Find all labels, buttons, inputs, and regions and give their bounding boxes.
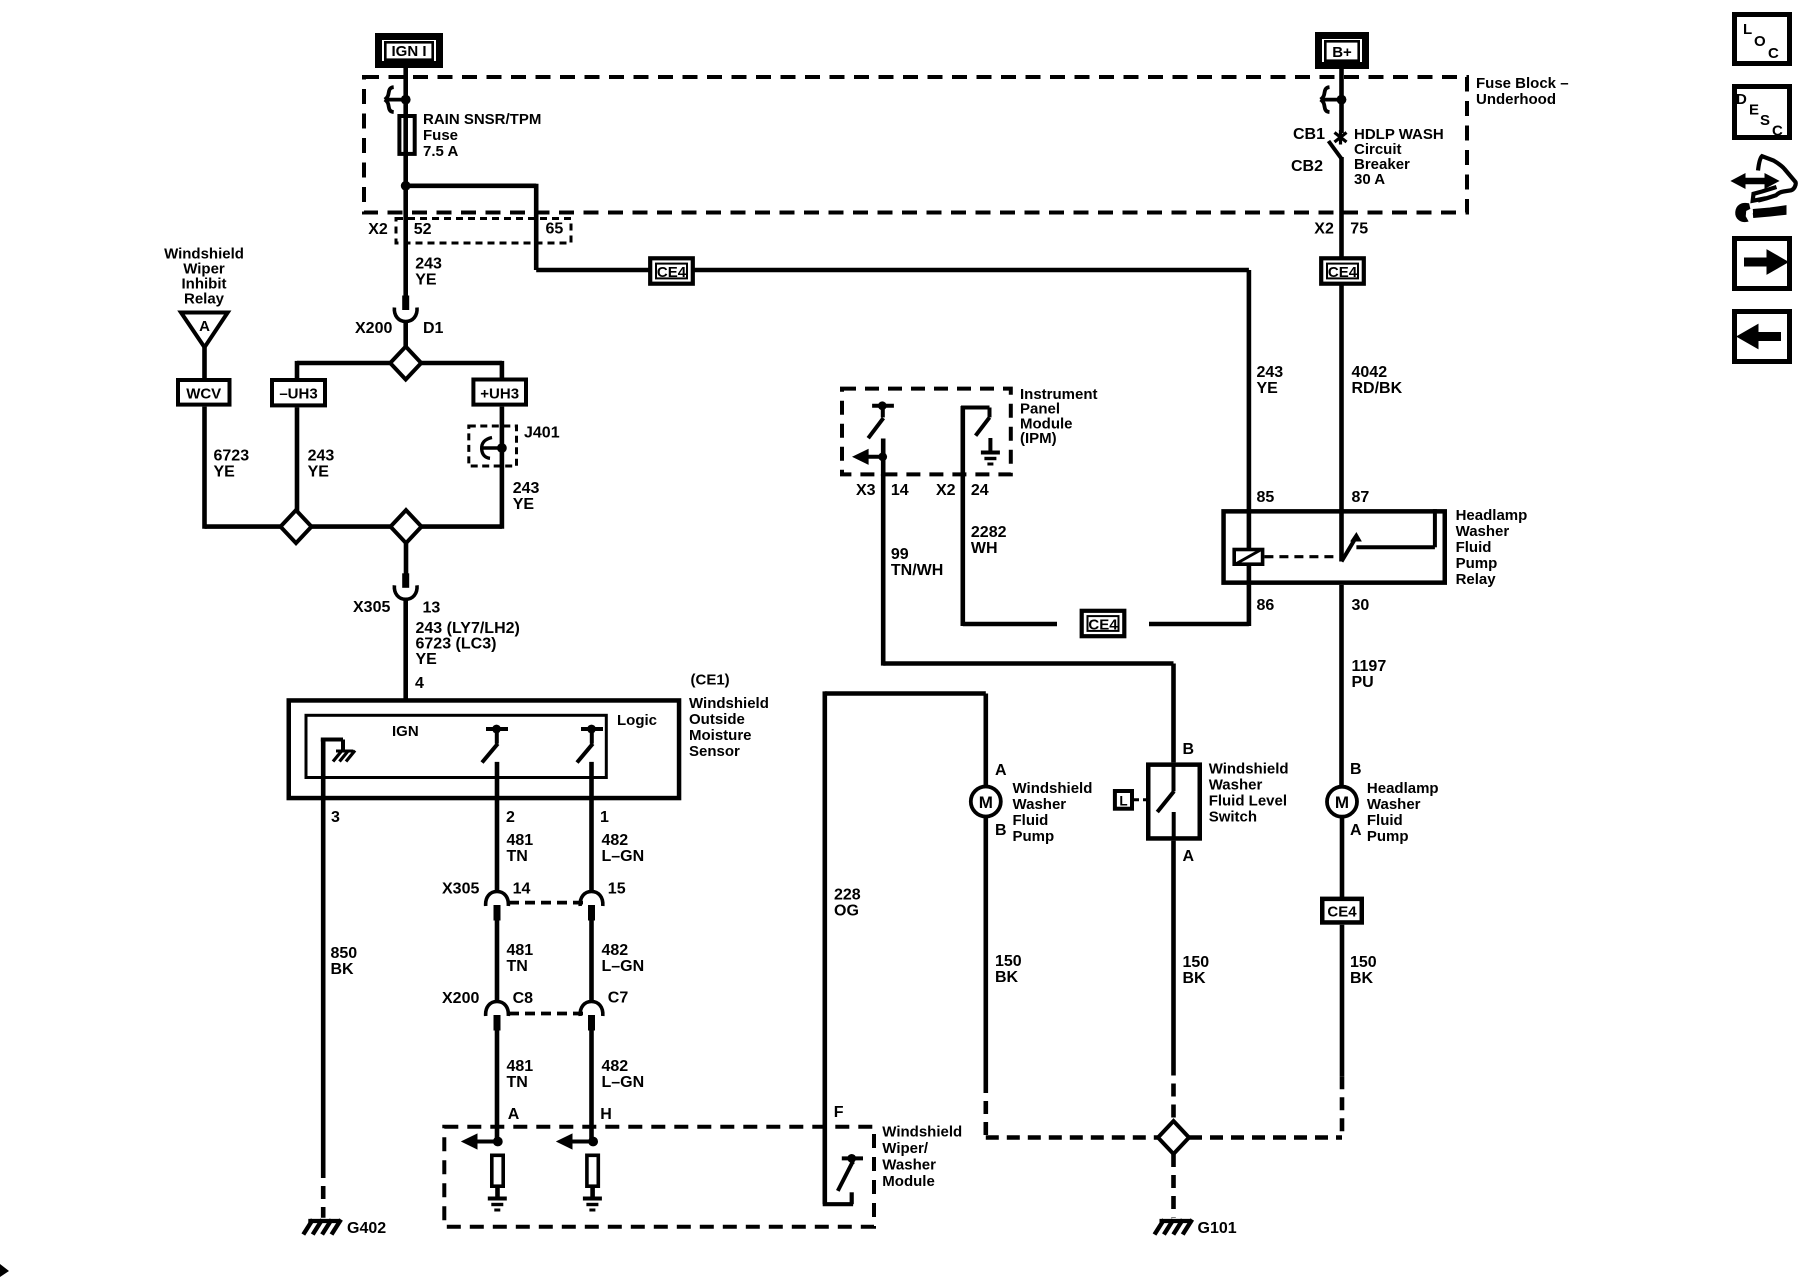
- svg-text:B: B: [995, 822, 1007, 839]
- fuse block underhood dashed box: [364, 77, 1467, 213]
- svg-text:Logic: Logic: [617, 712, 657, 729]
- sensor pin 3 wire: [321, 740, 326, 1166]
- svg-text:243: 243: [308, 448, 335, 465]
- svg-text:TN: TN: [507, 848, 528, 865]
- svg-text:O: O: [1754, 33, 1766, 50]
- svg-text:(CE1): (CE1): [691, 672, 730, 689]
- svg-text:X305: X305: [442, 881, 479, 898]
- svg-text:TN: TN: [507, 1074, 528, 1091]
- svg-text:Moisture: Moisture: [689, 727, 752, 744]
- svg-text:YE: YE: [513, 496, 535, 513]
- in-line connector CE4 mid: [1082, 611, 1125, 636]
- IPM right contact and ground: [960, 406, 965, 476]
- svg-text:243 (LY7/LH2): 243 (LY7/LH2): [416, 620, 520, 637]
- svg-text:E: E: [1749, 102, 1759, 119]
- connector X305 pin 13: [402, 573, 409, 588]
- wire CE4 to relay 87: [1339, 285, 1344, 511]
- svg-text:G402: G402: [347, 1220, 386, 1237]
- svg-text:14: 14: [891, 482, 909, 499]
- sidebar wrench icon: [1758, 156, 1796, 200]
- module F foot and switch: [823, 1202, 853, 1206]
- svg-text:482: 482: [602, 942, 629, 959]
- svg-text:YE: YE: [415, 272, 437, 289]
- svg-text:CB2: CB2: [1291, 158, 1323, 175]
- svg-text:CE4: CE4: [1328, 264, 1358, 281]
- svg-text:Washer: Washer: [1209, 777, 1263, 794]
- svg-text:481: 481: [507, 1058, 534, 1075]
- svg-text:X3: X3: [856, 482, 876, 499]
- svg-text:A: A: [995, 762, 1007, 779]
- svg-text:BK: BK: [995, 969, 1019, 986]
- svg-text:Fluid: Fluid: [1367, 812, 1403, 829]
- svg-text:L: L: [1119, 794, 1127, 809]
- in-line connector CE4 bottom: [1322, 899, 1362, 923]
- svg-text:IGN I: IGN I: [391, 43, 426, 60]
- svg-text:YE: YE: [308, 464, 330, 481]
- svg-text:Relay: Relay: [184, 291, 225, 308]
- wire CE4 to relay col: [693, 268, 1249, 273]
- svg-text:X200: X200: [442, 990, 479, 1007]
- ground G101: [1160, 1219, 1192, 1223]
- svg-text:A: A: [508, 1106, 520, 1123]
- svg-text:BK: BK: [331, 961, 355, 978]
- wire S2 to S3: [312, 524, 391, 529]
- svg-text:CE4: CE4: [1088, 616, 1118, 633]
- wire junction down through X2-52: [403, 186, 408, 296]
- splice J401 dashed box: [469, 426, 517, 466]
- svg-text:CE4: CE4: [1327, 904, 1357, 921]
- svg-text:3: 3: [331, 809, 340, 826]
- svg-text:Headlamp: Headlamp: [1456, 507, 1528, 524]
- svg-text:X2: X2: [936, 482, 956, 499]
- svg-text:X2: X2: [368, 221, 388, 238]
- dashed wire to G402: [321, 1165, 326, 1218]
- svg-text:B+: B+: [1332, 44, 1352, 61]
- svg-text:F: F: [834, 1104, 844, 1121]
- svg-text:WH: WH: [971, 540, 998, 557]
- svg-text:D1: D1: [423, 320, 444, 337]
- wire D1 to splice: [403, 322, 408, 349]
- svg-text:Fuse Block –: Fuse Block –: [1476, 75, 1569, 92]
- svg-text:C7: C7: [608, 990, 629, 1007]
- sensor switch 1: [486, 727, 508, 731]
- in-line connector CE4 right-top: [1321, 258, 1364, 283]
- wire splice to +UH3: [421, 361, 502, 366]
- svg-text:YE: YE: [416, 651, 438, 668]
- svg-text:OG: OG: [834, 903, 859, 920]
- wire -UH3 down: [295, 407, 300, 511]
- svg-text:Underhood: Underhood: [1476, 91, 1556, 108]
- svg-text:150: 150: [1350, 954, 1377, 971]
- svg-text:15: 15: [608, 881, 626, 898]
- wire 228 OG : module F up and over to washer pump: [822, 691, 827, 1204]
- svg-text:D: D: [1736, 91, 1747, 108]
- svg-text:PU: PU: [1352, 674, 1374, 691]
- svg-text:X200: X200: [355, 320, 392, 337]
- svg-text:Washer: Washer: [1013, 796, 1067, 813]
- svg-text:243: 243: [415, 256, 442, 273]
- relay switch 87-30: [1339, 509, 1344, 561]
- box +UH3: [473, 380, 526, 405]
- svg-text:99: 99: [891, 546, 909, 563]
- svg-text:482: 482: [602, 832, 629, 849]
- power feed IGN I: [379, 37, 440, 65]
- fuse RAIN SNSR/TPM 7.5A: [399, 116, 414, 154]
- svg-text:Windshield: Windshield: [1013, 780, 1093, 797]
- svg-text:A: A: [1183, 848, 1195, 865]
- svg-text:CE4: CE4: [657, 264, 687, 281]
- wire 2282 WH: [960, 474, 965, 626]
- svg-text:Washer: Washer: [1456, 523, 1510, 540]
- svg-text:481: 481: [507, 942, 534, 959]
- sidebar icon LOC: [1735, 15, 1790, 64]
- wire WCV down: [202, 407, 207, 529]
- module ground 1: [488, 1197, 507, 1201]
- headlamp washer fluid pump relay box: [1224, 511, 1445, 582]
- svg-text:Washer: Washer: [882, 1157, 936, 1174]
- svg-text:2282: 2282: [971, 524, 1007, 541]
- power feed B+: [1319, 36, 1366, 66]
- svg-text:4042: 4042: [1352, 364, 1388, 381]
- svg-text:YE: YE: [1257, 380, 1279, 397]
- dashed wires into ground splice: [986, 1135, 1158, 1140]
- svg-text:RD/BK: RD/BK: [1352, 380, 1403, 397]
- svg-text:L–GN: L–GN: [602, 958, 645, 975]
- svg-text:4: 4: [415, 675, 424, 692]
- svg-text:C8: C8: [513, 990, 534, 1007]
- relay coil: [1247, 509, 1252, 549]
- svg-text:Washer: Washer: [1367, 796, 1421, 813]
- svg-text:228: 228: [834, 887, 861, 904]
- svg-text:30 A: 30 A: [1354, 171, 1385, 188]
- sensor internal ground: [321, 738, 343, 742]
- svg-text:243: 243: [513, 480, 540, 497]
- svg-text:1: 1: [600, 809, 609, 826]
- level switch ground wire: [1171, 841, 1176, 1063]
- svg-text:Wiper/: Wiper/: [882, 1140, 929, 1157]
- svg-text:L–GN: L–GN: [602, 1074, 645, 1091]
- svg-text:13: 13: [423, 600, 441, 617]
- washer pump ground wire: [983, 816, 988, 1080]
- wires below X305: [495, 919, 500, 1002]
- svg-text:850: 850: [331, 945, 358, 962]
- connector X305 pins 14 15: [486, 892, 509, 907]
- svg-text:Fluid: Fluid: [1456, 539, 1492, 556]
- svg-text:65: 65: [546, 221, 564, 238]
- svg-text:2: 2: [506, 809, 515, 826]
- module arrow H: [588, 1137, 598, 1147]
- svg-text:CB1: CB1: [1293, 126, 1325, 143]
- module ground 2: [583, 1197, 602, 1201]
- connector X200 D1: [402, 296, 409, 311]
- L symbol box: [1115, 791, 1132, 809]
- svg-text:X305: X305: [353, 599, 390, 616]
- svg-text:H: H: [600, 1106, 612, 1123]
- svg-text:52: 52: [414, 221, 432, 238]
- svg-text:WCV: WCV: [186, 386, 221, 403]
- svg-text:X2: X2: [1314, 221, 1334, 238]
- wire 1197 PU: [1339, 585, 1344, 787]
- wire X305-13 to sensor: [403, 600, 408, 718]
- svg-text:B: B: [1350, 761, 1362, 778]
- J401 clip symbol: [483, 446, 502, 450]
- sensor inner box: [306, 715, 606, 777]
- svg-text:+UH3: +UH3: [480, 386, 519, 403]
- svg-text:Pump: Pump: [1367, 828, 1409, 845]
- svg-text:Windshield: Windshield: [689, 695, 769, 712]
- wire B+ to breaker: [1339, 69, 1344, 133]
- svg-text:BK: BK: [1183, 970, 1207, 987]
- IPM arrow X3-14: [881, 439, 886, 477]
- svg-text:–UH3: –UH3: [279, 386, 317, 403]
- svg-text:L–GN: L–GN: [602, 848, 645, 865]
- svg-text:B: B: [1183, 741, 1195, 758]
- svg-text:YE: YE: [214, 464, 236, 481]
- in-line connector CE4 left: [650, 258, 693, 283]
- svg-text:(IPM): (IPM): [1020, 430, 1057, 447]
- sidebar icon prev arrow: [1735, 312, 1790, 362]
- svg-text:RAIN SNSR/TPM: RAIN SNSR/TPM: [423, 111, 541, 128]
- junction dot: [401, 181, 411, 191]
- connector X200 pins C8 C7: [486, 1002, 509, 1017]
- svg-text:Module: Module: [882, 1173, 935, 1190]
- svg-text:24: 24: [971, 482, 989, 499]
- svg-text:Fluid Level: Fluid Level: [1209, 793, 1287, 810]
- svg-text:Switch: Switch: [1209, 809, 1257, 826]
- wire S3 down to X305: [404, 543, 409, 575]
- wire 99 TN/WH: [881, 474, 886, 666]
- wires below X200 to module: [495, 1029, 500, 1142]
- svg-text:85: 85: [1257, 489, 1275, 506]
- svg-text:L: L: [1743, 21, 1752, 38]
- page corner mark: [0, 1264, 9, 1277]
- svg-text:243: 243: [1257, 364, 1284, 381]
- fuse holder clip: [386, 98, 406, 102]
- module arrow A: [493, 1137, 503, 1147]
- wire splice to -UH3: [297, 361, 390, 366]
- splice diamond S1: [390, 347, 421, 380]
- svg-text:S: S: [1760, 112, 1770, 129]
- svg-text:Headlamp: Headlamp: [1367, 780, 1439, 797]
- svg-text:75: 75: [1350, 221, 1368, 238]
- svg-text:30: 30: [1352, 597, 1370, 614]
- sidebar icon next arrow: [1735, 239, 1790, 289]
- svg-text:6723 (LC3): 6723 (LC3): [416, 636, 497, 653]
- svg-text:A: A: [1350, 822, 1362, 839]
- IPM dashed box: [842, 389, 1011, 475]
- svg-text:150: 150: [995, 953, 1022, 970]
- ground G402: [308, 1219, 340, 1223]
- svg-text:Outside: Outside: [689, 711, 745, 728]
- sidebar icon DESC: [1735, 87, 1790, 138]
- svg-text:G101: G101: [1198, 1220, 1237, 1237]
- wire CE4 to relay 86: [1149, 622, 1249, 627]
- svg-text:C: C: [1772, 123, 1783, 140]
- wire 150 BK to ground: [1340, 925, 1345, 1076]
- svg-text:C: C: [1768, 45, 1779, 62]
- sensor switch 2: [581, 727, 603, 731]
- svg-text:Relay: Relay: [1456, 571, 1497, 588]
- splice diamond S2: [281, 510, 312, 543]
- triangle A wiper inhibit relay: [181, 313, 228, 348]
- box -UH3: [272, 380, 325, 405]
- svg-text:M: M: [1335, 793, 1349, 812]
- svg-text:Pump: Pump: [1456, 555, 1498, 572]
- svg-text:14: 14: [513, 881, 531, 898]
- svg-text:Pump: Pump: [1013, 828, 1055, 845]
- svg-text:1197: 1197: [1352, 658, 1387, 675]
- svg-text:Sensor: Sensor: [689, 743, 740, 760]
- svg-text:BK: BK: [1350, 970, 1374, 987]
- ground splice diamond: [1158, 1121, 1189, 1154]
- windshield wiper washer module dashed box: [444, 1127, 874, 1227]
- svg-text:TN/WH: TN/WH: [891, 562, 943, 579]
- svg-text:Windshield: Windshield: [882, 1124, 962, 1141]
- IPM switch left: [872, 404, 894, 408]
- svg-text:7.5 A: 7.5 A: [423, 143, 458, 160]
- svg-text:Fuse: Fuse: [423, 127, 458, 144]
- wire triangle to WCV: [202, 347, 207, 378]
- svg-text:TN: TN: [507, 958, 528, 975]
- splice diamond S3: [391, 510, 422, 543]
- module resistor 2: [587, 1155, 598, 1186]
- svg-text:150: 150: [1183, 954, 1210, 971]
- wire pump to CE4: [1340, 816, 1345, 898]
- wire IGN I to fuse: [403, 68, 408, 188]
- svg-text:J401: J401: [524, 425, 560, 442]
- svg-text:481: 481: [507, 832, 534, 849]
- svg-text:A: A: [199, 318, 210, 335]
- svg-text:Fluid: Fluid: [1013, 812, 1049, 829]
- box WCV: [178, 380, 230, 405]
- svg-text:IGN: IGN: [392, 723, 419, 740]
- wire branch to pin 65: [406, 184, 537, 189]
- connector X2 dashed box pins 52 65: [396, 219, 571, 244]
- module resistor 1: [492, 1155, 503, 1186]
- svg-text:87: 87: [1352, 489, 1370, 506]
- relay dashed link: [1264, 555, 1339, 558]
- svg-text:482: 482: [602, 1058, 629, 1075]
- svg-text:Windshield: Windshield: [1209, 761, 1289, 778]
- svg-text:86: 86: [1257, 597, 1275, 614]
- svg-text:M: M: [979, 793, 993, 812]
- svg-text:6723: 6723: [214, 448, 250, 465]
- wire +UH3 down through J401: [500, 407, 505, 529]
- horizontal wire pin65 to CE4 to relay85: [536, 268, 650, 273]
- windshield outside moisture sensor outer box: [289, 700, 679, 798]
